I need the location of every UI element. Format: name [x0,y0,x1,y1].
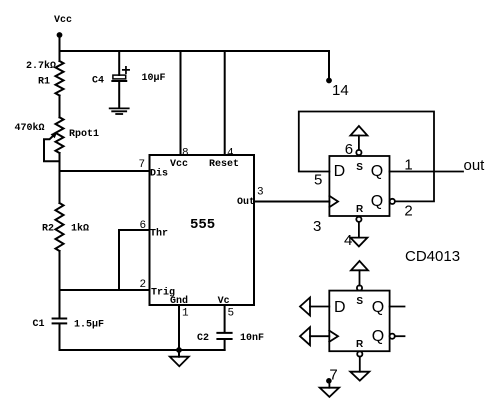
svg-text:Q: Q [371,193,383,210]
svg-text:R: R [356,204,364,215]
svg-text:Q: Q [372,328,384,345]
svg-text:Q: Q [372,299,384,316]
svg-text:1: 1 [404,157,412,174]
svg-text:5: 5 [314,172,322,189]
svg-text:Q: Q [371,163,383,180]
svg-text:10µF: 10µF [142,73,166,84]
svg-text:6: 6 [345,141,353,158]
svg-text:14: 14 [332,82,349,99]
svg-text:out: out [464,157,486,174]
svg-text:Vcc: Vcc [170,159,188,170]
svg-text:Out: Out [237,197,255,208]
svg-text:470kΩ: 470kΩ [15,122,45,134]
svg-text:R1: R1 [38,77,50,88]
svg-text:C4: C4 [92,76,104,87]
svg-text:S: S [356,296,363,307]
svg-text:4: 4 [227,147,234,159]
svg-text:Reset: Reset [209,159,239,170]
svg-text:D: D [334,299,346,316]
svg-text:6: 6 [140,220,147,232]
svg-text:8: 8 [182,147,189,159]
svg-text:10nF: 10nF [240,333,264,344]
svg-text:2: 2 [404,202,412,219]
svg-text:1: 1 [182,308,189,320]
svg-text:Vc: Vc [218,296,230,307]
svg-text:Gnd: Gnd [170,295,188,307]
svg-text:555: 555 [190,217,215,233]
svg-text:1kΩ: 1kΩ [71,223,89,235]
svg-text:CD4013: CD4013 [405,248,460,265]
svg-text:C2: C2 [197,333,209,344]
svg-text:R2: R2 [42,224,54,235]
svg-text:R: R [356,339,364,350]
svg-text:C1: C1 [33,319,45,330]
svg-text:Thr: Thr [150,228,168,240]
svg-text:3: 3 [313,218,321,235]
svg-text:7: 7 [139,159,146,171]
svg-text:5: 5 [228,308,235,320]
svg-text:4: 4 [344,232,352,249]
svg-text:2: 2 [140,279,147,291]
svg-text:2.7kΩ: 2.7kΩ [26,60,56,72]
svg-text:D: D [334,163,346,180]
svg-text:Dis: Dis [150,168,168,180]
svg-text:1.5µF: 1.5µF [74,320,104,331]
svg-text:3: 3 [257,187,264,199]
svg-text:7: 7 [329,366,337,383]
svg-text:Rpot1: Rpot1 [69,129,99,140]
svg-text:Vcc: Vcc [54,15,72,26]
svg-text:S: S [356,162,363,173]
